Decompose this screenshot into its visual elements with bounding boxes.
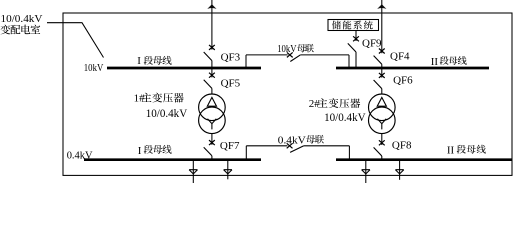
outgoing feeder wire 1 — [192, 160, 194, 184]
svg-text:10kV: 10kV — [277, 44, 297, 55]
outgoing feeder arrow 4 (downward) — [395, 170, 403, 174]
room boundary frame of 10/0.4kV distribution room — [63, 13, 512, 175]
busbar 0.4kV section II — [336, 158, 512, 161]
incoming feeder arrow 2 (upward) — [377, 4, 386, 9]
busbar 10kV section II — [336, 67, 489, 70]
0.4kV bus-tie riser left — [245, 146, 247, 160]
label 1#主变压器 — [134, 93, 184, 105]
breaker 0.4kV bus-tie — [287, 143, 304, 152]
transformer T1 secondary winding circle — [199, 107, 226, 134]
outgoing feeder arrow 1 (downward) — [189, 170, 197, 174]
wire (QF6 lower stub) — [381, 89, 383, 95]
svg-text:0.4kV: 0.4kV — [278, 135, 306, 146]
10kV bus-tie riser left — [245, 55, 247, 68]
svg-text:II: II — [431, 56, 439, 68]
wire (QF5 lower stub) — [211, 88, 213, 94]
wire (QF3 upper stub) — [211, 0, 213, 50]
label 0.4kV母联 — [278, 135, 324, 146]
svg-text:I: I — [138, 145, 142, 157]
incoming feeder arrow 1 (upward) — [207, 4, 216, 9]
breaker 10kV bus-tie — [287, 52, 300, 61]
breaker QF8 — [374, 140, 385, 156]
label II 段母线 (10kV) — [431, 56, 467, 68]
transformer T2 wye symbol — [377, 119, 386, 130]
transformer T2 delta symbol — [377, 97, 386, 106]
wire (QF8 lower stub) — [381, 156, 383, 160]
breaker QF4 — [374, 49, 385, 65]
0.4kV bus-tie riser right — [348, 146, 350, 160]
breaker QF9 — [348, 36, 359, 52]
outgoing feeder wire 3 — [365, 160, 367, 184]
label leader line from room label — [47, 23, 104, 58]
label 10kV母联 — [277, 44, 314, 55]
svg-text:QF3: QF3 — [221, 51, 241, 63]
outgoing feeder arrow 2 (downward) — [224, 170, 232, 174]
busbar 10kV section I — [107, 67, 261, 70]
label II 段母线 (0.4kV) — [447, 145, 486, 157]
wire QF9 to II busbar — [355, 52, 357, 68]
label 2#主变压器 — [309, 98, 361, 110]
breaker QF7 — [204, 140, 215, 156]
outgoing feeder wire 4 — [399, 160, 401, 180]
svg-text:10/0.4kV: 10/0.4kV — [324, 110, 366, 124]
energy storage system box 储能系统 — [328, 20, 379, 31]
outgoing feeder wire 2 — [227, 160, 229, 180]
svg-text:10/0.4kV: 10/0.4kV — [146, 106, 188, 120]
breaker QF6 — [374, 73, 385, 89]
transformer T2 primary winding circle — [369, 94, 396, 121]
wire (QF7 upper stub) — [211, 134, 213, 145]
svg-text:10kV: 10kV — [84, 62, 104, 74]
breaker QF5 — [204, 73, 215, 89]
label I 段母线 (10kV) — [137, 55, 171, 67]
svg-text:II: II — [447, 145, 455, 157]
svg-text:QF9: QF9 — [362, 37, 382, 49]
wire (QF4 upper stub) — [381, 0, 383, 53]
svg-text:2#: 2# — [309, 98, 321, 110]
label I 段母线 (0.4kV) — [138, 145, 172, 157]
wire (QF5 upper stub) — [211, 68, 213, 77]
svg-text:QF4: QF4 — [390, 51, 410, 63]
wire (0.4kV bus-tie right section) — [304, 145, 350, 147]
svg-text:QF8: QF8 — [392, 139, 412, 151]
wire (10kV bus-tie right section) — [300, 54, 349, 56]
wire (QF8 upper stub) — [381, 134, 383, 145]
busbar 0.4kV section I — [84, 158, 261, 161]
wire (QF4 lower stub) — [381, 64, 383, 68]
wire from storage box — [355, 31, 357, 42]
svg-text:QF5: QF5 — [221, 78, 241, 90]
wire (QF7 lower stub) — [211, 156, 213, 160]
wire (QF6 upper stub) — [381, 68, 383, 78]
breaker QF3 — [204, 45, 215, 61]
wire (0.4kV bus-tie left section) — [246, 145, 287, 147]
svg-text:QF6: QF6 — [393, 74, 413, 86]
transformer T1 primary winding circle — [199, 94, 226, 121]
label 变配电室 room line2 — [0, 25, 40, 35]
wire (QF3 lower stub) — [211, 61, 213, 68]
svg-text:10/0.4kV: 10/0.4kV — [1, 13, 43, 25]
transformer T1 wye symbol — [208, 119, 217, 130]
wire (10kV bus-tie left section) — [246, 54, 288, 56]
outgoing feeder arrow 3 (downward) — [362, 170, 370, 174]
svg-text:I: I — [137, 55, 141, 67]
10kV bus-tie riser right — [348, 55, 350, 68]
transformer T2 secondary winding circle — [369, 107, 396, 134]
svg-text:QF7: QF7 — [220, 140, 240, 152]
transformer T1 delta symbol — [207, 97, 216, 106]
